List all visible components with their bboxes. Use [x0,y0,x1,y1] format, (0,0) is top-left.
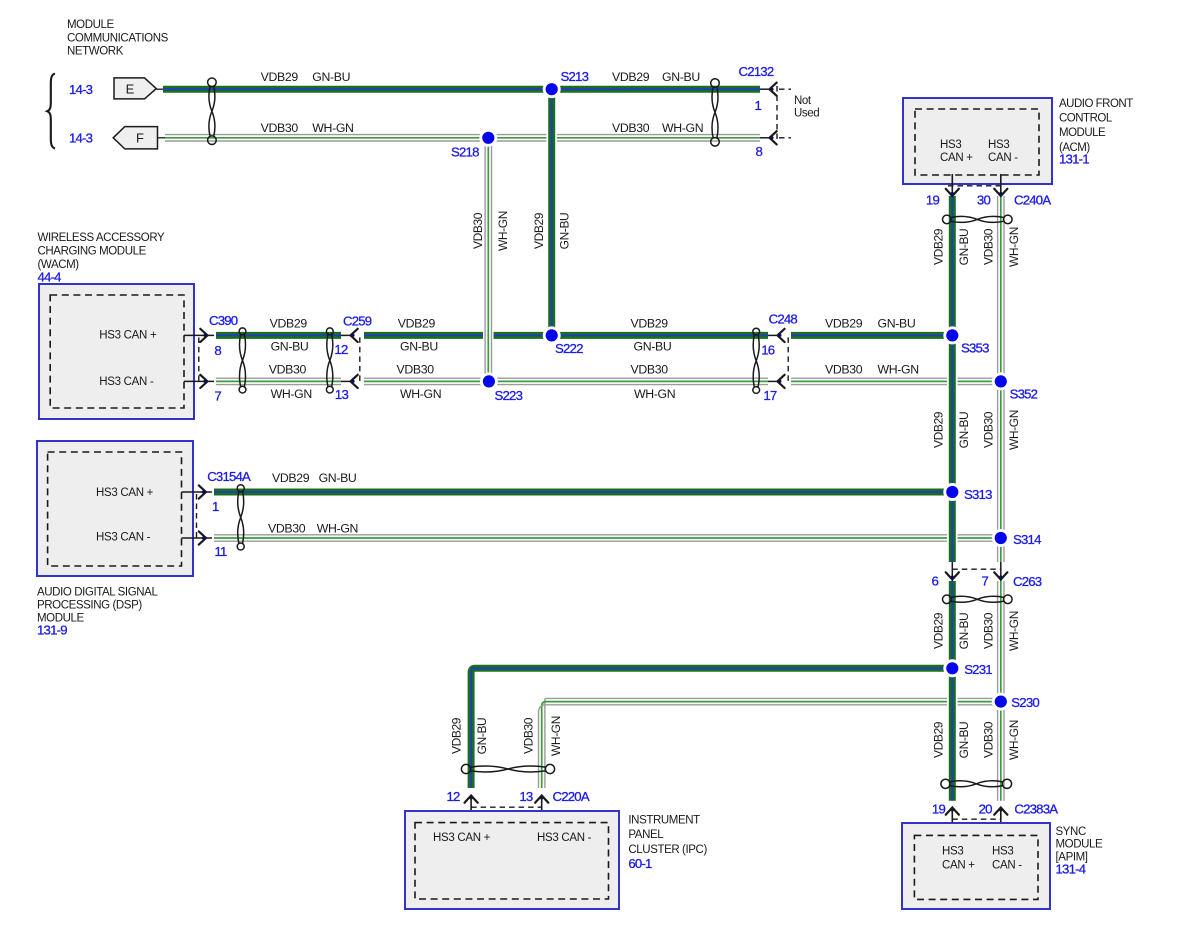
twisted pair at C248 [753,328,760,393]
splice S213 [543,80,561,98]
svg-text:WH-GN: WH-GN [496,211,510,251]
svg-text:F: F [136,131,144,146]
svg-text:14-3: 14-3 [69,82,93,97]
svg-text:MODULE: MODULE [67,19,115,31]
twisted pair rows E-F left [208,78,217,145]
svg-text:WH-GN: WH-GN [1007,720,1021,760]
svg-text:S352: S352 [1010,386,1038,401]
svg-text:GN-BU: GN-BU [634,340,672,354]
splice S353 [943,326,961,344]
svg-text:HS3 CAN -: HS3 CAN - [99,376,154,388]
svg-text:COMMUNICATIONS: COMMUNICATIONS [67,32,169,44]
wire VDB29 GN-BU vertical C240A to C263 [947,196,958,562]
module ACM pin arrows [946,189,959,196]
svg-text:VDB30: VDB30 [982,612,996,649]
svg-text:VDB30: VDB30 [982,228,996,265]
splice S313 [943,483,961,501]
svg-text:VDB29: VDB29 [450,717,464,754]
svg-text:S218: S218 [451,145,479,160]
svg-text:VDB29: VDB29 [932,411,946,448]
svg-text:WH-GN: WH-GN [400,387,441,401]
twisted pair below C240A [943,215,1013,224]
wire VDB30 WH-GN IPC branch corner to S230 [539,698,1001,788]
connector C259 [341,334,350,336]
svg-text:HS3 CAN -: HS3 CAN - [537,832,592,844]
module IPC title [628,814,707,856]
svg-text:131-1: 131-1 [1059,152,1089,167]
svg-text:C2132: C2132 [739,64,774,79]
wire VDB29 GN-BU WACM row C259 to C248 [364,332,768,339]
module IPC box [405,811,619,909]
wire VDB29 GN-BU vertical C263 to C2383A [947,581,958,801]
svg-text:SYNC: SYNC [1056,826,1086,838]
svg-text:GN-BU: GN-BU [957,412,971,449]
svg-text:CAN -: CAN - [988,152,1018,164]
twisted pair above C220A [461,764,554,773]
connector C390 dashed line [198,337,200,381]
svg-text:C259: C259 [343,313,372,328]
connector C220A [465,796,478,803]
svg-text:WH-GN: WH-GN [271,387,312,401]
svg-text:CONTROL: CONTROL [1059,113,1113,125]
svg-text:S314: S314 [1013,532,1041,547]
svg-text:44-4: 44-4 [38,270,62,285]
svg-text:VDB30: VDB30 [522,717,536,754]
module WACM pin leads and arrows [184,334,214,336]
svg-text:1: 1 [212,499,219,514]
svg-text:PANEL: PANEL [628,829,664,841]
svg-text:VDB29: VDB29 [932,612,946,649]
module ACM pin leads [951,174,953,195]
svg-text:VDB29: VDB29 [612,70,650,84]
svg-text:WH-GN: WH-GN [634,387,675,401]
svg-text:CAN +: CAN + [940,152,973,164]
svg-text:14-3: 14-3 [69,130,93,145]
svg-text:GN-BU: GN-BU [878,317,916,331]
svg-text:GN-BU: GN-BU [957,613,971,650]
svg-text:60-1: 60-1 [628,856,652,871]
splice S222 [543,326,561,344]
module WACM title [38,232,166,271]
svg-text:S222: S222 [555,341,583,356]
svg-text:S353: S353 [961,341,989,356]
svg-text:Not: Not [794,95,812,107]
svg-text:VDB30: VDB30 [261,121,299,135]
twisted pair rows E-F at C2132 [711,79,720,146]
twisted pair below C263 [943,595,1013,604]
svg-text:12: 12 [447,789,461,804]
connector F [113,127,157,149]
connector C263 [951,562,953,569]
connector C240A dashed line [948,185,1005,187]
splice S218 [479,129,497,147]
svg-text:7: 7 [214,389,221,404]
svg-text:8: 8 [214,343,221,358]
lead from E [156,88,164,90]
svg-text:VDB29: VDB29 [270,317,308,331]
svg-text:WH-GN: WH-GN [1007,410,1021,450]
svg-text:GN-BU: GN-BU [557,213,571,250]
svg-text:VDB29: VDB29 [261,70,299,84]
wire VDB29 GN-BU row E from connector E to C2132 [163,86,760,93]
wire VDB29 GN-BU IPC branch corner to S231 [471,668,952,788]
svg-text:19: 19 [926,192,940,207]
svg-text:S231: S231 [964,662,992,677]
svg-text:WH-GN: WH-GN [662,121,703,135]
svg-text:VDB29: VDB29 [532,212,546,249]
svg-text:VDB30: VDB30 [631,363,669,377]
splice S230 [992,693,1010,711]
svg-text:Used: Used [794,108,819,120]
svg-text:E: E [126,82,135,97]
svg-text:CLUSTER (IPC): CLUSTER (IPC) [628,844,707,856]
module DSP title [37,587,158,625]
svg-text:PROCESSING (DSP): PROCESSING (DSP) [37,600,142,612]
wire VDB30 WH-GN vertical C240A to C263 [998,196,1004,562]
module DSP box [37,441,193,576]
module SYNC box [902,823,1050,909]
svg-text:GN-BU: GN-BU [312,70,350,84]
svg-text:CAN +: CAN + [942,860,975,872]
svg-text:20: 20 [979,802,993,817]
connector C3154A dashed line [196,494,198,538]
svg-text:6: 6 [931,574,938,589]
connector C2383A [946,808,959,815]
wire VDB29 GN-BU DSP row C3154A to S313 [214,489,952,496]
wire VDB29 GN-BU vertical S213 to S222 [546,89,557,335]
not used label [794,95,819,120]
svg-text:S230: S230 [1011,695,1039,710]
svg-text:8: 8 [755,144,762,159]
svg-text:WH-GN: WH-GN [317,521,358,535]
svg-text:AUDIO FRONT: AUDIO FRONT [1059,98,1133,110]
module IPC HS3 CAN labels [433,832,592,844]
svg-text:VDB29: VDB29 [398,317,436,331]
svg-text:131-9: 131-9 [37,623,67,638]
svg-text:VDB29: VDB29 [272,471,310,485]
module DSP pin leads and arrows [182,491,213,493]
svg-text:AUDIO DIGITAL SIGNAL: AUDIO DIGITAL SIGNAL [37,587,158,599]
wire VDB30 WH-GN vertical S218 to S223 [485,138,491,382]
svg-text:C220A: C220A [553,789,590,804]
wire VDB30 WH-GN row C248 to S352 [791,378,1001,384]
twisted pair above C2383A [941,779,1012,788]
svg-text:GN-BU: GN-BU [475,718,489,755]
svg-text:HS3 CAN +: HS3 CAN + [96,487,154,499]
svg-text:VDB29: VDB29 [932,228,946,265]
svg-text:S213: S213 [561,69,589,84]
svg-text:19: 19 [932,802,946,817]
svg-text:HS3 CAN +: HS3 CAN + [433,832,491,844]
svg-text:C263: C263 [1013,574,1042,589]
svg-text:HS3: HS3 [988,139,1009,151]
wire VDB30 WH-GN WACM row C259 to C248 [364,378,768,384]
svg-text:WIRELESS ACCESSORY: WIRELESS ACCESSORY [38,232,166,244]
svg-text:HS3 CAN +: HS3 CAN + [99,330,157,342]
svg-text:VDB30: VDB30 [612,121,650,135]
twisted pair WACM rows at C259 [326,328,333,393]
svg-text:GN-BU: GN-BU [957,229,971,266]
module communications network title [67,19,169,58]
svg-text:WH-GN: WH-GN [549,716,563,756]
svg-text:C3154A: C3154A [207,469,251,484]
svg-text:1: 1 [754,98,761,113]
lead from F [158,137,167,139]
svg-text:GN-BU: GN-BU [957,722,971,759]
module ACM title [1059,98,1133,154]
svg-text:13: 13 [519,789,533,804]
svg-text:HS3: HS3 [992,846,1013,858]
svg-text:WH-GN: WH-GN [878,363,919,377]
connector C248 [768,334,776,336]
twisted pair DSP rows at C3154A [237,485,244,550]
svg-text:C248: C248 [769,311,798,326]
svg-text:INSTRUMENT: INSTRUMENT [628,814,700,826]
svg-text:HS3: HS3 [942,846,963,858]
wire VDB30 WH-GN WACM row C390 to C259 [216,378,341,384]
svg-text:VDB30: VDB30 [982,411,996,448]
svg-text:16: 16 [761,343,775,358]
svg-text:WH-GN: WH-GN [1007,611,1021,651]
wire VDB29 GN-BU row C248 to S353 [791,332,952,339]
module ACM HS3 CAN labels [940,139,1018,164]
module SYNC title [1056,826,1104,864]
svg-text:VDB30: VDB30 [982,721,996,758]
svg-text:CAN -: CAN - [992,860,1022,872]
svg-text:HS3 CAN -: HS3 CAN - [96,532,151,544]
brace [47,74,55,149]
svg-text:VDB30: VDB30 [471,212,485,249]
svg-text:VDB30: VDB30 [397,363,435,377]
svg-text:HS3: HS3 [940,139,961,151]
module SYNC HS3 CAN labels [942,846,1022,872]
svg-text:VDB29: VDB29 [631,317,669,331]
svg-text:MODULE: MODULE [1059,127,1106,139]
connector E [114,78,156,99]
module WACM box [39,284,194,419]
svg-text:13: 13 [335,387,349,402]
splice S314 [992,529,1010,547]
wire VDB30 WH-GN vertical C263 to C2383A [998,581,1004,801]
svg-text:C390: C390 [209,313,238,328]
wire VDB29 GN-BU WACM row C390 to C259 [216,332,341,339]
svg-text:CHARGING MODULE: CHARGING MODULE [38,246,147,258]
svg-text:GN-BU: GN-BU [662,70,700,84]
connector C2132 [760,88,769,90]
svg-text:30: 30 [977,192,991,207]
svg-text:131-4: 131-4 [1056,862,1086,877]
wire VDB30 WH-GN DSP row C3154A to S314 [214,535,1001,541]
svg-text:11: 11 [215,544,228,559]
svg-text:S313: S313 [964,487,992,502]
svg-text:GN-BU: GN-BU [319,471,357,485]
splice S223 [480,372,498,390]
svg-text:S223: S223 [495,388,523,403]
svg-text:VDB30: VDB30 [268,521,306,535]
twisted pair WACM rows at C390 [239,328,246,393]
svg-text:VDB30: VDB30 [269,363,307,377]
svg-text:GN-BU: GN-BU [271,340,309,354]
splice S231 [943,659,961,677]
svg-text:GN-BU: GN-BU [400,340,438,354]
svg-text:7: 7 [981,574,988,589]
svg-text:17: 17 [763,388,777,403]
svg-text:VDB29: VDB29 [932,721,946,758]
svg-text:C240A: C240A [1014,192,1051,207]
module ACM box [903,98,1052,184]
svg-text:MODULE: MODULE [1056,839,1104,851]
wire VDB30 WH-GN row F from connector F to C2132 [165,135,760,141]
splice S352 [992,372,1010,390]
svg-text:NETWORK: NETWORK [67,46,124,58]
svg-text:WH-GN: WH-GN [312,121,353,135]
svg-text:12: 12 [334,342,348,357]
svg-text:C2383A: C2383A [1014,802,1058,817]
svg-text:VDB30: VDB30 [825,363,863,377]
svg-text:VDB29: VDB29 [825,317,863,331]
svg-text:WH-GN: WH-GN [1007,227,1021,267]
